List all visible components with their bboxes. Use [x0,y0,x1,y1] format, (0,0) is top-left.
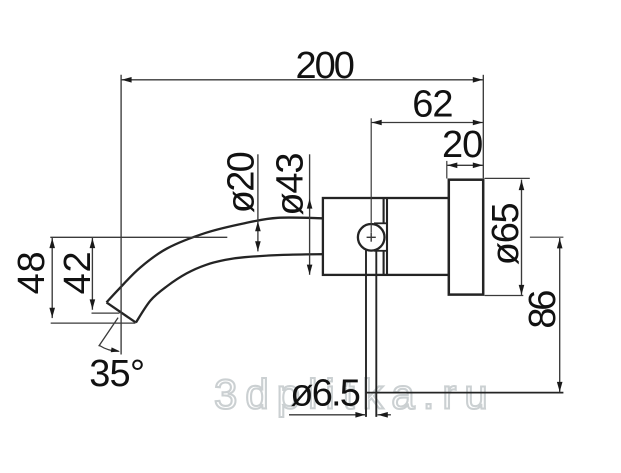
body rectangle [323,198,449,275]
dim o20 line [257,154,259,251]
body seam right [386,198,388,275]
svg-text:86: 86 [522,291,564,329]
dim 62 line [371,122,483,124]
dim o65 top extension [485,177,530,179]
body seam left [383,198,385,223]
svg-text:ø43: ø43 [270,154,312,216]
svg-text:62: 62 [412,83,452,125]
ball joint cross [367,236,376,238]
wall plate [449,180,483,295]
svg-text:ø6.5: ø6.5 [290,372,360,414]
svg-text:42: 42 [57,251,99,295]
dim o43 line [309,154,311,274]
dim o65 bottom extension [485,295,524,297]
svg-text:35°: 35° [89,353,144,395]
dim 42 line [91,238,93,310]
angle 35 slanted leg [99,318,118,347]
svg-text:ø65: ø65 [485,203,527,265]
cartridge slot ticks [374,222,388,224]
dim 20 extension [446,161,448,179]
svg-text:200: 200 [296,45,354,87]
svg-text:ø20: ø20 [221,152,263,213]
faucet centreline [50,236,227,238]
dim o6.5 line right [377,414,391,416]
dim 86 top extension (centreline) [530,236,564,238]
rod end line / 86 bottom extension [366,392,563,394]
dim 200 left extension [120,75,122,355]
svg-text:48: 48 [11,251,53,295]
dim o6.5 line left [289,414,366,416]
dim 48 bottom extension [51,322,136,324]
lever rod [365,251,367,417]
dim 86 line [559,238,561,392]
dim o65 line [521,180,523,296]
angle 35 arc [100,346,119,352]
spout tip face [107,302,136,322]
spout outer curve [107,218,324,303]
svg-text:20: 20 [442,124,482,166]
dim 48 line [51,238,53,318]
ball joint circle [358,224,385,251]
spout inner curve [136,254,324,322]
dim 42 bottom extension [92,312,120,314]
dim 200 line [121,79,483,81]
dim 62 extension to ball centre [370,118,372,232]
dim 200 right extension [482,75,484,179]
dim 20 line [447,164,484,166]
